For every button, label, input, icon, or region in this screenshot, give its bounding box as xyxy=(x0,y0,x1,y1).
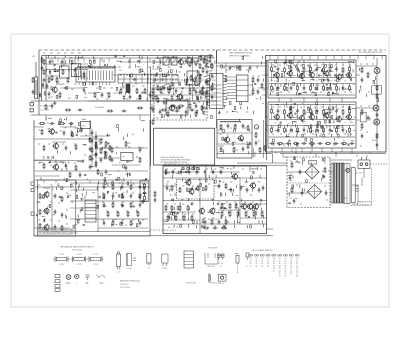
capacitor C143 xyxy=(115,55,117,57)
value label xyxy=(298,162,300,164)
resistor R31 xyxy=(59,123,65,125)
value label xyxy=(353,83,355,85)
value label xyxy=(112,183,114,185)
resistor R111 xyxy=(342,67,344,73)
capacitor C191 xyxy=(185,170,187,172)
value label xyxy=(316,65,318,67)
value label xyxy=(85,79,88,81)
resistor R32 xyxy=(41,129,43,135)
wire xyxy=(349,126,351,128)
wire xyxy=(277,63,279,66)
value label xyxy=(343,140,345,142)
value label xyxy=(174,168,176,170)
value label xyxy=(342,64,344,66)
wire xyxy=(297,84,299,86)
value label xyxy=(116,146,118,148)
component lead xyxy=(43,219,45,222)
value label xyxy=(208,183,210,185)
capacitor C33 xyxy=(125,165,128,170)
component lead xyxy=(291,121,293,124)
wire xyxy=(290,63,292,66)
component lead xyxy=(233,166,235,169)
capacitor C160 xyxy=(218,111,220,113)
component lead xyxy=(249,142,251,145)
value label xyxy=(319,135,321,137)
value label xyxy=(182,185,184,187)
component lead xyxy=(223,225,225,228)
value label xyxy=(298,171,301,173)
capacitor C148 xyxy=(107,142,109,144)
wire xyxy=(203,76,207,78)
component lead xyxy=(170,206,172,209)
coil L2 xyxy=(118,74,178,76)
bus wire xyxy=(287,182,330,184)
capacitor C205 xyxy=(143,190,146,195)
wire xyxy=(365,56,367,60)
value label xyxy=(146,98,149,100)
value label xyxy=(166,203,168,205)
wire xyxy=(70,207,98,209)
component lead xyxy=(296,115,298,118)
component lead xyxy=(235,185,237,188)
wire xyxy=(70,189,98,191)
wire xyxy=(272,154,274,164)
value label xyxy=(272,106,274,108)
component lead xyxy=(123,137,125,140)
value label xyxy=(372,139,374,141)
capacitor C91 xyxy=(303,127,306,132)
wire xyxy=(277,84,279,86)
svg-text:4k7: 4k7 xyxy=(344,123,347,125)
component lead xyxy=(205,175,207,178)
resistor R108 xyxy=(323,85,325,91)
component lead xyxy=(184,73,186,76)
variable capacitor gang 2 xyxy=(171,57,177,65)
svg-text:1167: 1167 xyxy=(212,80,216,82)
component lead xyxy=(236,220,238,223)
resistor R154 xyxy=(235,203,237,209)
value label xyxy=(184,213,186,215)
wire xyxy=(297,63,299,66)
wire xyxy=(77,219,81,221)
capacitor C118 xyxy=(240,185,243,190)
head amplifier sub-box outline xyxy=(38,180,76,236)
value label xyxy=(74,189,76,191)
resistor R214 xyxy=(78,129,80,132)
meter box xyxy=(121,152,133,160)
wire xyxy=(290,98,292,102)
resistor R33 xyxy=(71,131,73,137)
value label xyxy=(222,149,224,151)
resistor R257 xyxy=(289,60,291,63)
value label xyxy=(204,98,207,100)
value label xyxy=(326,74,328,76)
value label xyxy=(86,178,88,180)
resistor R248 xyxy=(315,93,317,96)
component lead xyxy=(191,202,193,205)
value label xyxy=(328,64,330,66)
resistor R179 xyxy=(56,95,58,98)
wire xyxy=(188,83,192,85)
component lead xyxy=(285,79,287,82)
svg-text:2S: 2S xyxy=(279,258,281,260)
value label xyxy=(324,162,326,164)
wire xyxy=(330,192,333,194)
value label xyxy=(296,133,298,135)
resistor R87 xyxy=(234,124,236,130)
resistor R149 xyxy=(171,205,173,211)
capacitor C31 xyxy=(111,157,114,162)
component lead xyxy=(322,129,324,132)
wire xyxy=(277,115,279,120)
junction xyxy=(64,119,65,120)
svg-text:2S: 2S xyxy=(285,258,287,260)
value label xyxy=(360,63,362,65)
value label xyxy=(62,162,64,164)
component lead xyxy=(169,189,171,192)
value label xyxy=(132,85,135,87)
wire xyxy=(82,143,86,145)
junction xyxy=(64,179,65,180)
resistor R120 xyxy=(303,109,305,115)
wire xyxy=(55,180,57,183)
capacitor C116 xyxy=(218,183,221,188)
value label xyxy=(64,52,67,54)
resistor R161 xyxy=(237,211,239,217)
legend transistor case drawing xyxy=(126,254,136,270)
resistor R83 xyxy=(252,89,254,95)
capacitor C157 xyxy=(47,156,49,158)
value label xyxy=(297,88,299,90)
svg-text:NOTE: ALL RESISTORS 1/4W: NOTE: ALL RESISTORS 1/4W xyxy=(161,156,184,159)
capacitor C50 xyxy=(105,169,108,174)
resistor R229 xyxy=(197,97,199,100)
capacitor C9 xyxy=(139,95,142,100)
component lead xyxy=(323,87,325,90)
value label xyxy=(206,98,209,100)
value label xyxy=(262,210,264,212)
wire xyxy=(296,131,300,133)
value label xyxy=(350,133,352,135)
transistor Q6 xyxy=(43,207,50,214)
value label xyxy=(158,66,161,68)
value label xyxy=(203,110,206,112)
junction xyxy=(159,76,161,84)
capacitor C84 xyxy=(329,85,332,90)
component lead xyxy=(106,64,108,67)
component lead xyxy=(209,78,211,81)
component lead xyxy=(181,91,183,94)
value label xyxy=(241,203,243,205)
op-amp IC1 IF amplifier xyxy=(76,67,116,86)
junction xyxy=(62,65,63,66)
value label xyxy=(298,60,301,62)
value label xyxy=(320,133,322,135)
wire xyxy=(74,58,76,64)
component lead xyxy=(349,78,351,81)
wire xyxy=(52,161,66,163)
wire xyxy=(179,58,181,62)
wire xyxy=(349,84,351,86)
resistor R335 xyxy=(100,138,102,144)
wire xyxy=(329,126,331,128)
wire xyxy=(282,154,284,158)
wire xyxy=(91,129,93,168)
value label xyxy=(350,121,353,123)
component lead xyxy=(89,137,91,140)
resistor R49 xyxy=(112,184,114,190)
value label xyxy=(279,64,281,66)
wire xyxy=(248,84,253,86)
bus wire xyxy=(217,153,273,155)
value label xyxy=(220,127,222,129)
component lead xyxy=(78,56,80,59)
capacitor C60 xyxy=(206,89,209,94)
value label xyxy=(238,221,241,223)
capacitor C135 xyxy=(53,64,55,66)
resistor R91 xyxy=(255,132,257,138)
value label xyxy=(136,98,139,100)
wire xyxy=(129,58,131,62)
component lead xyxy=(311,130,313,133)
component lead xyxy=(71,122,73,125)
component lead xyxy=(194,60,196,63)
wire xyxy=(208,212,212,214)
component lead xyxy=(273,74,275,77)
wire xyxy=(336,63,338,66)
value label xyxy=(290,180,292,182)
component lead xyxy=(232,129,234,132)
value label xyxy=(74,143,76,145)
wire xyxy=(266,124,269,126)
resistor R47 xyxy=(61,196,63,202)
value label xyxy=(168,226,170,228)
capacitor C195 xyxy=(202,226,204,228)
wire xyxy=(151,74,154,76)
value label xyxy=(38,143,40,145)
channel 2 sub-board outline xyxy=(268,102,356,148)
transistor Q20 xyxy=(273,113,279,120)
resistor R70 xyxy=(201,89,203,95)
value label xyxy=(262,103,264,105)
resistor R114 xyxy=(271,108,273,114)
value label xyxy=(350,140,353,142)
capacitor C190 xyxy=(171,198,173,200)
wire xyxy=(171,212,175,214)
svg-text:TAPE DECK SCHEMATIC: TAPE DECK SCHEMATIC xyxy=(229,54,251,57)
resistor R298 xyxy=(173,212,175,215)
op-amp IC2 AM/FM decoder xyxy=(207,73,227,108)
wire xyxy=(249,166,251,172)
value label xyxy=(375,139,378,141)
value label xyxy=(137,65,139,67)
component lead xyxy=(138,60,140,63)
value label xyxy=(118,66,121,68)
component lead xyxy=(166,87,168,90)
wire xyxy=(34,186,150,188)
resistor R133 xyxy=(325,143,331,145)
wire xyxy=(163,211,196,213)
capacitor C123 xyxy=(218,219,221,224)
wire xyxy=(290,84,292,86)
component lead xyxy=(247,151,249,154)
wire xyxy=(60,87,84,89)
wire xyxy=(46,57,200,59)
transistor Q2 xyxy=(48,128,55,135)
resistor R216 xyxy=(136,224,138,227)
value label xyxy=(246,69,248,71)
capacitor C106 xyxy=(367,115,370,120)
component lead xyxy=(327,78,329,81)
resistor R338 xyxy=(105,151,107,157)
resistor R330 xyxy=(67,77,69,83)
wire xyxy=(140,147,144,149)
wire xyxy=(227,98,237,100)
wire xyxy=(356,119,360,121)
svg-text:S1 FM/AM: S1 FM/AM xyxy=(95,106,104,109)
capacitor C93 xyxy=(316,127,319,132)
wire xyxy=(323,115,325,120)
component lead xyxy=(161,73,163,76)
svg-text:2SC945: 2SC945 xyxy=(65,283,71,285)
junction xyxy=(203,218,204,219)
resistor R119 xyxy=(297,127,299,133)
component lead xyxy=(297,74,299,77)
component lead xyxy=(259,175,261,178)
resistor R288 xyxy=(310,125,312,128)
capacitor C125 xyxy=(289,175,292,180)
value label xyxy=(102,219,104,221)
wire xyxy=(70,182,148,184)
component lead xyxy=(64,164,66,167)
wire xyxy=(95,131,97,168)
resistor R11 xyxy=(144,88,146,94)
component lead xyxy=(119,187,121,190)
svg-text:64: 64 xyxy=(279,270,281,272)
component lead xyxy=(82,187,84,190)
value label xyxy=(166,72,168,74)
transistor Q16 xyxy=(308,71,314,78)
wire xyxy=(219,151,223,153)
antenna FM dipole xyxy=(35,62,38,99)
value label xyxy=(286,64,288,66)
resistor R259 xyxy=(325,64,327,67)
resistor R24 xyxy=(65,109,71,111)
wire xyxy=(227,92,237,94)
resistor R304 xyxy=(220,193,222,196)
value label xyxy=(323,65,325,67)
resistor R172 xyxy=(76,95,78,98)
junction xyxy=(232,111,233,112)
voltage chart column 1 xyxy=(249,254,253,267)
value label xyxy=(344,133,346,135)
component lead xyxy=(233,220,235,223)
wire xyxy=(46,75,60,77)
component lead xyxy=(201,105,203,108)
resistor R53 xyxy=(139,193,141,199)
wire xyxy=(269,62,355,64)
capacitor C171 xyxy=(315,69,317,71)
wire xyxy=(342,126,344,128)
speaker jack SP1 xyxy=(374,68,380,74)
resistor R326 xyxy=(323,158,325,161)
transistor Q26 xyxy=(345,113,351,120)
wire xyxy=(297,73,299,78)
svg-text:R 1/4W: R 1/4W xyxy=(59,254,64,256)
wire xyxy=(97,183,99,232)
value label xyxy=(352,140,354,142)
resistor R219 xyxy=(103,196,105,199)
bus wire xyxy=(269,83,355,85)
svg-text:64: 64 xyxy=(261,261,263,263)
component lead xyxy=(222,150,224,153)
wire xyxy=(217,62,267,64)
wire xyxy=(79,57,83,59)
value label xyxy=(272,64,274,66)
value label xyxy=(360,129,362,131)
wire xyxy=(197,74,201,76)
wire xyxy=(329,71,333,73)
capacitor C121 xyxy=(262,185,265,190)
wire xyxy=(163,223,267,225)
resistor R12 xyxy=(152,88,154,94)
voltage chart column 3 xyxy=(260,254,264,267)
value label xyxy=(43,52,46,54)
wire xyxy=(333,84,337,86)
resistor R337 xyxy=(105,141,107,147)
value label xyxy=(122,192,124,194)
resistor R190 xyxy=(179,82,181,85)
wire xyxy=(348,60,352,62)
component lead xyxy=(44,218,46,221)
wire xyxy=(98,227,148,229)
resistor R239 xyxy=(229,101,231,104)
wire xyxy=(157,88,161,90)
lamp PL1 xyxy=(254,125,258,129)
value label xyxy=(38,219,40,221)
resistor R71 xyxy=(189,103,191,109)
resistor R213 xyxy=(43,195,45,198)
resistor R255 xyxy=(331,65,333,68)
wire xyxy=(341,148,343,152)
svg-text:64: 64 xyxy=(256,266,258,268)
value label xyxy=(133,257,136,259)
resistor R102 xyxy=(290,66,292,72)
svg-text:2S: 2S xyxy=(273,268,275,270)
capacitor C13 xyxy=(205,63,208,68)
resistor R225 xyxy=(221,65,223,68)
wire xyxy=(98,147,112,149)
resistor R145 xyxy=(197,185,199,191)
bus wire xyxy=(163,177,267,179)
component lead xyxy=(261,56,263,59)
component lead xyxy=(58,82,60,85)
resistor R130 xyxy=(277,143,283,145)
capacitor C149 xyxy=(67,195,69,197)
resistor R207 xyxy=(96,146,98,149)
value label xyxy=(353,129,355,131)
value label xyxy=(84,154,86,156)
svg-text:64: 64 xyxy=(285,261,287,263)
resistor R106 xyxy=(310,85,312,91)
wire xyxy=(329,73,331,78)
resistor R132 xyxy=(309,143,315,145)
resistor R217 xyxy=(104,151,106,154)
resistor R59 xyxy=(137,211,139,217)
switch bank S2 xyxy=(85,200,96,222)
value label xyxy=(313,70,315,72)
component lead xyxy=(77,214,79,217)
